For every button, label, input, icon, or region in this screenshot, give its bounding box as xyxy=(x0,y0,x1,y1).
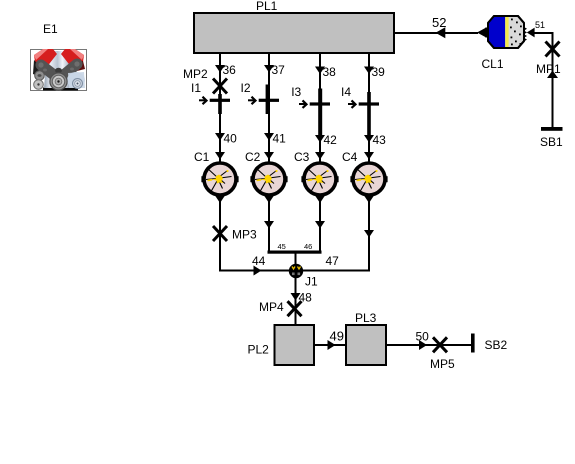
svg-text:46: 46 xyxy=(304,242,312,251)
svg-text:41: 41 xyxy=(273,131,287,145)
svg-text:MP5: MP5 xyxy=(430,357,455,371)
svg-text:MP4: MP4 xyxy=(259,300,284,314)
svg-text:C4: C4 xyxy=(342,150,358,164)
svg-text:42: 42 xyxy=(324,133,338,147)
svg-text:C3: C3 xyxy=(294,150,310,164)
svg-text:PL2: PL2 xyxy=(248,343,270,357)
svg-text:I1: I1 xyxy=(191,81,201,95)
svg-text:47: 47 xyxy=(326,254,340,268)
svg-text:PL1: PL1 xyxy=(256,0,278,13)
svg-text:E1: E1 xyxy=(43,22,58,36)
svg-text:MP3: MP3 xyxy=(232,228,257,242)
svg-text:CL1: CL1 xyxy=(482,57,504,71)
svg-text:40: 40 xyxy=(224,131,238,145)
svg-text:51: 51 xyxy=(535,20,545,30)
svg-text:43: 43 xyxy=(373,133,387,147)
svg-text:J1: J1 xyxy=(305,275,318,289)
svg-text:I4: I4 xyxy=(341,85,351,99)
svg-text:MP2: MP2 xyxy=(183,67,208,81)
svg-text:45: 45 xyxy=(278,242,286,251)
svg-text:49: 49 xyxy=(330,329,344,344)
svg-text:SB2: SB2 xyxy=(485,338,508,352)
svg-text:SB1: SB1 xyxy=(540,135,563,149)
svg-text:PL3: PL3 xyxy=(355,311,377,325)
svg-text:I3: I3 xyxy=(291,85,301,99)
svg-text:MP1: MP1 xyxy=(536,62,561,76)
svg-text:52: 52 xyxy=(432,15,446,30)
svg-text:50: 50 xyxy=(416,330,430,344)
svg-text:C2: C2 xyxy=(245,150,261,164)
svg-text:44: 44 xyxy=(252,254,266,268)
svg-text:38: 38 xyxy=(323,65,337,79)
svg-text:I2: I2 xyxy=(241,81,251,95)
svg-text:37: 37 xyxy=(272,63,286,77)
svg-text:C1: C1 xyxy=(194,150,210,164)
svg-text:36: 36 xyxy=(223,63,237,77)
svg-text:39: 39 xyxy=(372,65,386,79)
